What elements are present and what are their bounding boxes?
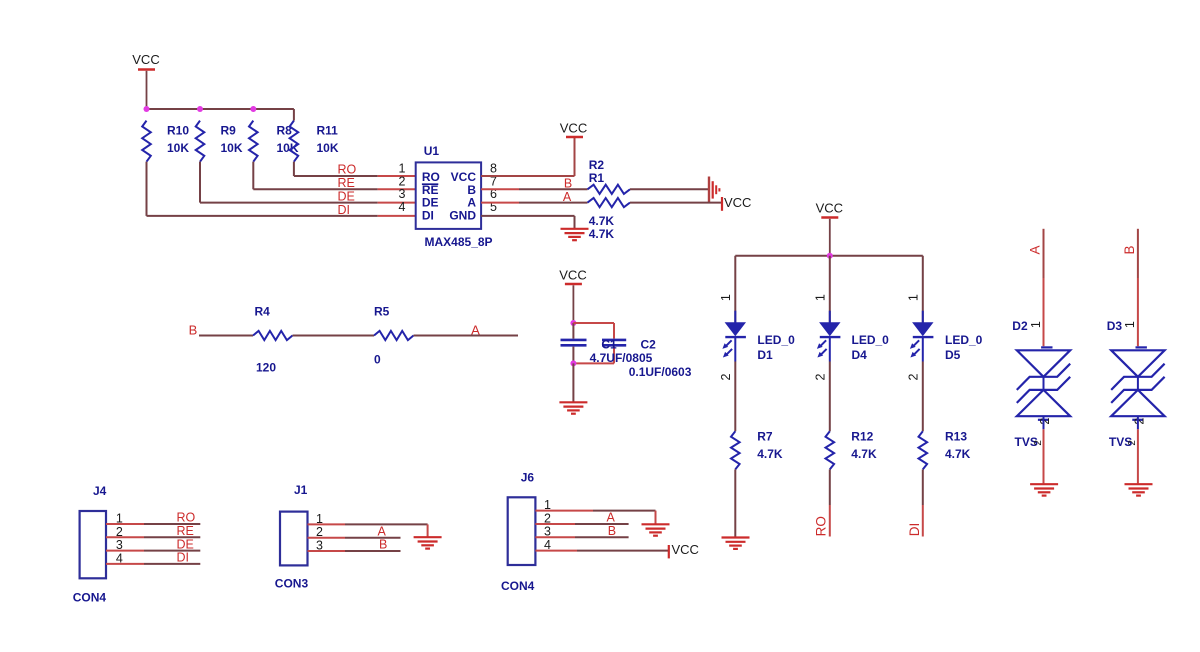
J4 pin 2 wire bbox=[106, 536, 200, 538]
net label B (J6) bbox=[608, 524, 616, 538]
pin 1 label D4 bbox=[813, 294, 827, 301]
svg-text:VCC: VCC bbox=[672, 542, 699, 557]
wire pin5 to ground bbox=[481, 216, 574, 228]
wire pin7 B bbox=[481, 188, 587, 190]
part type label TVS D2 bbox=[1015, 435, 1038, 449]
svg-text:J1: J1 bbox=[294, 483, 308, 497]
resistor R10 bbox=[142, 121, 189, 162]
svg-text:3: 3 bbox=[116, 538, 123, 552]
J1 pin 1 number bbox=[316, 512, 323, 526]
capacitor C2 bbox=[602, 340, 626, 345]
svg-text:VCC: VCC bbox=[560, 121, 587, 136]
wire pin6 A bbox=[481, 202, 587, 204]
svg-text:2: 2 bbox=[813, 373, 827, 380]
U1 pin name DI bbox=[422, 208, 434, 222]
J6 pin 2 number bbox=[544, 511, 551, 525]
U1 pin name B bbox=[467, 183, 476, 197]
wire R4 to R5 bbox=[293, 335, 375, 337]
pin 1 number bbox=[399, 162, 406, 176]
svg-text:R10: R10 bbox=[167, 124, 189, 138]
J1 pin 2 number bbox=[316, 525, 323, 539]
J4 pin 4 wire bbox=[106, 563, 200, 565]
J6 pin 3 wire bbox=[535, 536, 628, 538]
wire R5 to A bbox=[414, 335, 519, 337]
resistor R5 bbox=[374, 305, 414, 367]
net label A (pin6) bbox=[563, 190, 572, 204]
svg-text:120: 120 bbox=[256, 361, 276, 375]
svg-text:4.7K: 4.7K bbox=[851, 447, 877, 461]
pin 1 label D1 bbox=[719, 294, 733, 301]
net label RO (J4) bbox=[177, 511, 196, 525]
svg-text:4: 4 bbox=[399, 200, 406, 214]
svg-text:B: B bbox=[189, 323, 198, 338]
junction (VCC-R10) bbox=[144, 106, 150, 112]
svg-text:D1: D1 bbox=[757, 348, 773, 362]
power symbol VCC (A wire) bbox=[722, 195, 751, 211]
svg-text:2: 2 bbox=[1127, 440, 1138, 446]
wire R2 to VCC port bbox=[630, 188, 708, 190]
pin 1 label D2 bbox=[1029, 321, 1043, 328]
svg-text:RO: RO bbox=[177, 511, 196, 525]
U1 pin name RO bbox=[422, 170, 440, 184]
svg-text:10K: 10K bbox=[167, 141, 189, 155]
net label B (left) bbox=[189, 323, 198, 338]
LED refdes D4 bbox=[852, 348, 868, 362]
svg-text:0: 0 bbox=[374, 353, 381, 367]
svg-text:1: 1 bbox=[1029, 321, 1043, 328]
LED refdes D5 bbox=[945, 348, 961, 362]
LED D4 bbox=[817, 311, 889, 362]
svg-text:2: 2 bbox=[1033, 440, 1044, 446]
power symbol VCC (top-left) bbox=[132, 52, 159, 109]
svg-text:DE: DE bbox=[177, 537, 194, 551]
svg-text:D4: D4 bbox=[852, 348, 868, 362]
svg-text:RE: RE bbox=[177, 524, 194, 538]
junction (LED bus) bbox=[827, 253, 833, 259]
resistor R4 bbox=[253, 305, 293, 375]
wire LED cathode D4 bbox=[829, 362, 831, 432]
svg-text:RO: RO bbox=[338, 163, 357, 177]
net label B (rotated) bbox=[1122, 245, 1137, 254]
ground (LED D1) bbox=[722, 538, 750, 549]
label C2 value bbox=[629, 338, 692, 379]
resistor R11 bbox=[290, 121, 339, 162]
power symbol VCC (pin8) bbox=[560, 121, 587, 137]
resistor R9 bbox=[196, 121, 243, 162]
svg-text:B: B bbox=[564, 176, 572, 190]
svg-text:R1: R1 bbox=[589, 171, 605, 185]
pin 2 small label D2 bbox=[1033, 440, 1044, 446]
U1 pin name DE bbox=[422, 196, 439, 210]
svg-text:4.7K: 4.7K bbox=[945, 447, 971, 461]
wire R1 to VCC bbox=[630, 202, 722, 204]
wire C2 branch bottom bbox=[573, 347, 614, 364]
J6 pin 3 number bbox=[544, 525, 551, 539]
wire R8 to RE bbox=[253, 162, 415, 190]
pin 5 number bbox=[490, 200, 497, 214]
wire LED cathode D1 bbox=[734, 362, 736, 432]
svg-text:1: 1 bbox=[813, 294, 827, 301]
pin 7 number bbox=[490, 174, 497, 188]
power symbol VCC (caps) bbox=[559, 268, 586, 323]
connector J6 box bbox=[501, 471, 535, 593]
wire R12 to RO bbox=[829, 469, 831, 536]
svg-text:VCC: VCC bbox=[132, 52, 159, 67]
svg-text:1: 1 bbox=[1123, 321, 1137, 328]
ground (TVS D3) bbox=[1125, 484, 1153, 495]
pin 2 label D3 bbox=[1132, 418, 1146, 425]
connector J4 box bbox=[73, 484, 107, 605]
LED refdes D1 bbox=[757, 348, 773, 362]
ground (TVS D2) bbox=[1030, 484, 1058, 495]
net label DI (J4) bbox=[177, 551, 190, 565]
power port (rotated bars) bbox=[709, 177, 719, 204]
svg-text:U1: U1 bbox=[424, 144, 440, 158]
resistor R12 bbox=[826, 429, 877, 469]
J6 pin 1 wire to ground bbox=[535, 511, 655, 524]
pin 2 label D2 bbox=[1038, 418, 1052, 425]
svg-text:DE: DE bbox=[338, 189, 355, 203]
svg-text:DI: DI bbox=[907, 523, 922, 537]
svg-text:4.7K: 4.7K bbox=[589, 214, 615, 228]
net label B (pin7) bbox=[564, 176, 572, 190]
J4 pin 1 number bbox=[116, 512, 123, 526]
svg-text:0.1UF/0603: 0.1UF/0603 bbox=[629, 365, 692, 379]
net label RO bbox=[338, 163, 357, 177]
svg-text:LED_0: LED_0 bbox=[945, 333, 983, 347]
diode refdes D2 bbox=[1012, 319, 1028, 333]
J4 pin 1 wire bbox=[106, 523, 200, 525]
wire caps to ground bbox=[572, 363, 574, 401]
net label DE bbox=[338, 189, 355, 203]
LED D5 bbox=[910, 311, 983, 362]
svg-text:R4: R4 bbox=[255, 305, 271, 319]
wire R10 to DI bbox=[147, 162, 416, 216]
U1 pin name GND bbox=[449, 208, 476, 222]
svg-text:1: 1 bbox=[906, 294, 920, 301]
svg-text:CON4: CON4 bbox=[501, 579, 535, 593]
svg-text:VCC: VCC bbox=[724, 195, 751, 210]
J4 pin 3 number bbox=[116, 538, 123, 552]
svg-text:J4: J4 bbox=[93, 484, 107, 498]
svg-text:2: 2 bbox=[906, 373, 920, 380]
wire LED anode D4 bbox=[829, 256, 831, 323]
wire R7 to ground bbox=[734, 469, 736, 537]
svg-text:DI: DI bbox=[338, 203, 351, 217]
svg-text:D3: D3 bbox=[1107, 319, 1123, 333]
resistor R8 bbox=[249, 121, 299, 162]
svg-text:CON3: CON3 bbox=[275, 577, 309, 591]
resistor R7 bbox=[731, 429, 783, 469]
svg-text:2: 2 bbox=[719, 373, 733, 380]
svg-text:VCC: VCC bbox=[816, 201, 843, 216]
U1 pin name VCC bbox=[451, 170, 477, 184]
connector J1 box bbox=[275, 483, 309, 591]
svg-text:1: 1 bbox=[116, 512, 123, 526]
pin 1 label D5 bbox=[906, 294, 920, 301]
svg-text:A: A bbox=[607, 511, 616, 525]
wire LED anode D5 bbox=[922, 256, 924, 323]
capacitor C1 bbox=[561, 323, 587, 363]
J1 pin 3 wire bbox=[308, 550, 401, 552]
pin 6 number bbox=[490, 187, 497, 201]
wire LED bus bbox=[735, 255, 923, 257]
U1 pin name RE bbox=[422, 183, 439, 197]
ground (pin5) bbox=[561, 229, 589, 240]
wire C2 branch top bbox=[573, 323, 614, 339]
svg-text:DI: DI bbox=[422, 208, 434, 222]
junction (C bottom) bbox=[570, 360, 576, 366]
pin 2 label D5 bbox=[906, 373, 920, 380]
diode refdes D3 bbox=[1107, 319, 1123, 333]
svg-text:D5: D5 bbox=[945, 348, 961, 362]
pin 3 number bbox=[399, 187, 406, 201]
svg-text:R2: R2 bbox=[589, 158, 605, 172]
junction (R8) bbox=[250, 106, 256, 112]
svg-text:B: B bbox=[608, 524, 616, 538]
pin 1 label D3 bbox=[1123, 321, 1137, 328]
svg-text:DI: DI bbox=[177, 551, 190, 565]
svg-text:VCC: VCC bbox=[559, 268, 586, 283]
net label RE (J4) bbox=[177, 524, 194, 538]
pin 2 label D4 bbox=[813, 373, 827, 380]
J1 pin 2 wire bbox=[308, 537, 401, 539]
net label A (right) bbox=[471, 323, 480, 338]
wire net B to TVS bbox=[1137, 229, 1139, 346]
TVS diode D2 symbol bbox=[1017, 347, 1070, 419]
svg-text:MAX485_8P: MAX485_8P bbox=[425, 235, 493, 249]
svg-text:1: 1 bbox=[719, 294, 733, 301]
resistor R1 bbox=[588, 198, 631, 241]
LED D1 bbox=[722, 311, 795, 362]
J4 pin 3 wire bbox=[106, 550, 200, 552]
svg-text:10K: 10K bbox=[221, 141, 243, 155]
svg-text:4.7K: 4.7K bbox=[589, 227, 615, 241]
svg-text:J6: J6 bbox=[521, 471, 535, 485]
wire net A to TVS bbox=[1043, 229, 1045, 346]
wire TVS to ground D2 bbox=[1043, 416, 1045, 483]
svg-text:2: 2 bbox=[1132, 418, 1146, 425]
wire top bus bbox=[147, 109, 294, 121]
J4 pin 2 number bbox=[116, 525, 123, 539]
net label A (rotated) bbox=[1027, 245, 1042, 254]
svg-text:2: 2 bbox=[1038, 418, 1052, 425]
svg-text:4.7UF/0805: 4.7UF/0805 bbox=[590, 351, 653, 365]
net label RE bbox=[338, 176, 355, 190]
ground (caps) bbox=[559, 402, 587, 413]
J6 pin 2 wire bbox=[535, 523, 628, 525]
label C1 value bbox=[590, 338, 653, 365]
svg-text:GND: GND bbox=[449, 208, 476, 222]
J4 pin 4 number bbox=[116, 552, 123, 566]
wire LED anode D1 bbox=[734, 256, 736, 323]
svg-text:RO: RO bbox=[813, 516, 828, 536]
pin 8 number bbox=[490, 162, 497, 176]
svg-text:2: 2 bbox=[116, 525, 123, 539]
svg-text:R11: R11 bbox=[317, 124, 339, 138]
power symbol VCC (J6 pin4) bbox=[669, 542, 699, 559]
part type label TVS D3 bbox=[1109, 435, 1132, 449]
U1 RE overbar bbox=[422, 183, 438, 185]
J6 pin 4 wire bbox=[535, 550, 668, 552]
ground (J6) bbox=[642, 524, 670, 535]
net label DE (J4) bbox=[177, 537, 194, 551]
op-amp U1 box bbox=[416, 144, 493, 249]
wire R9 to DE bbox=[200, 162, 416, 203]
svg-text:R9: R9 bbox=[221, 124, 237, 138]
net label DI bbox=[338, 203, 351, 217]
svg-text:A: A bbox=[563, 190, 572, 204]
pin 2 label D1 bbox=[719, 373, 733, 380]
svg-text:4: 4 bbox=[116, 552, 123, 566]
svg-text:LED_0: LED_0 bbox=[757, 333, 795, 347]
J6 pin 4 number bbox=[544, 538, 551, 552]
wire TVS to ground D3 bbox=[1137, 416, 1139, 483]
wire B to R4 bbox=[199, 335, 253, 337]
svg-text:C1: C1 bbox=[601, 338, 617, 352]
svg-text:R12: R12 bbox=[851, 429, 873, 443]
net label A (J1) bbox=[378, 524, 387, 538]
resistor R13 bbox=[919, 429, 971, 469]
wire R11 to RO bbox=[294, 162, 416, 176]
pin 4 number bbox=[399, 200, 406, 214]
svg-text:R5: R5 bbox=[374, 305, 390, 319]
svg-text:B: B bbox=[379, 538, 387, 552]
svg-text:A: A bbox=[471, 323, 480, 338]
J1 pin 3 number bbox=[316, 538, 323, 552]
svg-text:C2: C2 bbox=[641, 338, 657, 352]
pin 2 number bbox=[399, 174, 406, 188]
svg-text:R13: R13 bbox=[945, 429, 967, 443]
power symbol VCC (LED bus) bbox=[816, 201, 843, 256]
svg-text:A: A bbox=[378, 524, 387, 538]
svg-text:10K: 10K bbox=[317, 141, 339, 155]
net label A (J6) bbox=[607, 511, 616, 525]
net label DI (rotated) bbox=[907, 523, 922, 537]
svg-text:RE: RE bbox=[338, 176, 355, 190]
svg-text:LED_0: LED_0 bbox=[852, 333, 890, 347]
svg-text:R7: R7 bbox=[757, 429, 773, 443]
junction (C top) bbox=[570, 320, 576, 326]
junction (R9) bbox=[197, 106, 203, 112]
J6 pin 1 number bbox=[544, 498, 551, 512]
net label B (J1) bbox=[379, 538, 387, 552]
net label RO (rotated) bbox=[813, 516, 828, 536]
svg-text:D2: D2 bbox=[1012, 319, 1028, 333]
svg-text:4.7K: 4.7K bbox=[757, 447, 783, 461]
svg-text:CON4: CON4 bbox=[73, 591, 107, 605]
resistor R2 bbox=[588, 158, 631, 194]
wire R13 to DI bbox=[922, 469, 924, 536]
svg-text:B: B bbox=[1122, 245, 1137, 254]
U1 pin name A bbox=[467, 196, 476, 210]
wire pin8 to VCC bbox=[481, 138, 574, 176]
ground (J1) bbox=[414, 537, 442, 548]
wire LED cathode D5 bbox=[922, 362, 924, 432]
J1 pin 1 wire to ground bbox=[308, 524, 428, 536]
svg-text:A: A bbox=[1027, 245, 1042, 254]
TVS diode D3 symbol bbox=[1111, 347, 1164, 419]
pin 2 small label D3 bbox=[1127, 440, 1138, 446]
